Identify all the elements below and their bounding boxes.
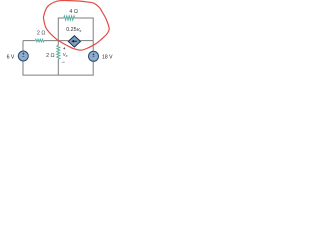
svg-text:6 V: 6 V xyxy=(7,55,15,61)
svg-text:+: + xyxy=(63,46,66,51)
svg-text:0.25vx: 0.25vx xyxy=(66,27,81,33)
resistor 2ohm vertical zigzag xyxy=(57,45,60,59)
dependent source arrowhead xyxy=(71,40,74,43)
red annotation loop xyxy=(43,1,109,51)
svg-text:2 Ω: 2 Ω xyxy=(46,53,55,59)
svg-text:4 Ω: 4 Ω xyxy=(69,9,78,15)
svg-text:−: − xyxy=(62,60,66,66)
svg-text:vx: vx xyxy=(63,52,69,58)
wire left vertical lower + bottom left xyxy=(23,61,58,75)
wire middle horizontal left xyxy=(23,40,35,42)
svg-text:18 V: 18 V xyxy=(102,54,113,60)
source 18V circle xyxy=(89,51,99,61)
dependent source diamond xyxy=(68,36,80,47)
wire mid vertical top xyxy=(57,41,59,46)
wire top branch left vertical xyxy=(58,18,64,41)
wire left vertical upper (6V branch) xyxy=(22,41,24,51)
source 6V circle xyxy=(18,51,28,61)
svg-text:2 Ω: 2 Ω xyxy=(37,30,46,36)
wire mid vertical bottom xyxy=(57,59,59,75)
wire middle horizontal right xyxy=(81,40,94,42)
dependent source arrow tail xyxy=(73,40,78,42)
wire top branch right vertical xyxy=(75,18,94,51)
wire middle horizontal center xyxy=(44,40,68,42)
wire bottom right xyxy=(58,61,93,75)
resistor 4ohm zigzag xyxy=(64,16,75,20)
resistor 2ohm horizontal zigzag xyxy=(35,39,44,42)
